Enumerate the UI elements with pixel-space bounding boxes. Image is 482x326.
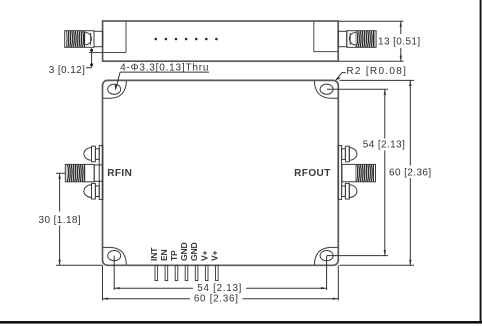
callout 4-phi3.3 leader arrow: [116, 72, 120, 88]
mounting hole top-right: [320, 84, 333, 94]
svg-text:60 [2.36]: 60 [2.36]: [194, 294, 239, 305]
pin 4: [185, 265, 188, 280]
witness line bottom-right hole down: [326, 256, 328, 290]
mounting hole bottom-right: [320, 251, 333, 261]
dimension 30 [1.18] line: [59, 173, 61, 265]
RFIN threaded barrel: [65, 164, 94, 181]
top view right SMA rear: [338, 31, 347, 46]
svg-text:13 [0.51]: 13 [0.51]: [378, 37, 421, 48]
svg-text:RFOUT: RFOUT: [294, 168, 331, 179]
svg-text:R2 [R0.08]: R2 [R0.08]: [346, 66, 407, 77]
witness line from bottom-right hole to 54 dim: [327, 255, 388, 257]
witness line bottom-left hole down: [113, 256, 115, 290]
witness line body bottom edge to 60 dim: [340, 264, 415, 266]
callout R2 leader: [336, 73, 346, 80]
top view pin dots: [155, 38, 218, 41]
svg-text:EN: EN: [159, 249, 169, 261]
top view left SMA threaded barrel: [65, 31, 94, 48]
svg-text:30 [1.18]: 30 [1.18]: [39, 215, 82, 226]
top view body: [103, 21, 339, 61]
RFIN top flange screw: [84, 146, 99, 162]
border bottom: [0, 321, 482, 324]
RFOUT top flange screw: [342, 146, 357, 162]
dimension 60 vertical line: [409, 80, 411, 265]
dimension 13 [0.51] witness lines: [339, 21, 404, 61]
svg-text:RFIN: RFIN: [107, 168, 132, 179]
pin 7: [216, 265, 219, 280]
dimension 54 horizontal line: [114, 287, 326, 289]
svg-text:60 [2.36]: 60 [2.36]: [389, 168, 432, 179]
dimension 13 [0.51] line: [400, 21, 402, 61]
body bottom edge extension left: [56, 264, 103, 266]
RFOUT connector flange plate: [338, 146, 342, 200]
top view left SMA rear: [94, 31, 103, 46]
svg-text:54 [2.13]: 54 [2.13]: [363, 140, 406, 151]
main body: [103, 80, 339, 265]
RFIN connector flange plate: [99, 146, 103, 200]
witness line body left edge down: [102, 265, 104, 300]
corner lug top-right: [314, 81, 338, 98]
corner lug top-left: [103, 81, 127, 98]
pin 6: [205, 265, 208, 280]
svg-text:GND: GND: [189, 243, 199, 262]
top view right SMA threaded barrel: [347, 31, 376, 48]
svg-text:GND: GND: [179, 243, 189, 262]
svg-text:TP: TP: [169, 250, 179, 261]
pin 5: [195, 265, 198, 280]
witness line body top edge to 60 dim: [340, 79, 415, 81]
dimension 54 vertical line: [384, 89, 386, 255]
pin 1: [155, 265, 158, 280]
dimension 60 horizontal line: [103, 298, 339, 300]
dimension 30 witness line at connector axis: [56, 172, 65, 174]
corner lug bottom-left: [103, 247, 127, 264]
RFIN barrel rear section: [94, 165, 102, 181]
witness line from top-right hole to 54 dim: [327, 88, 388, 90]
top view right connector flange: [314, 22, 338, 52]
mounting hole top-left: [108, 84, 121, 94]
pin 3: [175, 265, 178, 280]
border right: [480, 0, 482, 324]
svg-text:V+: V+: [199, 250, 209, 261]
pin 2: [165, 265, 168, 280]
svg-text:3 [0.12]: 3 [0.12]: [49, 65, 86, 76]
top view left connector flange: [89, 22, 126, 53]
dimension 3 [0.12] leader: [86, 48, 92, 68]
svg-text:V+: V+: [209, 250, 219, 261]
RFOUT bottom flange screw: [342, 183, 357, 199]
witness line body right edge down: [337, 265, 339, 300]
RFIN bottom flange screw: [84, 183, 99, 199]
RFOUT threaded barrel: [342, 164, 376, 181]
svg-text:INT: INT: [149, 247, 159, 261]
corner lug bottom-right: [314, 247, 338, 264]
mounting hole bottom-left: [108, 251, 121, 261]
